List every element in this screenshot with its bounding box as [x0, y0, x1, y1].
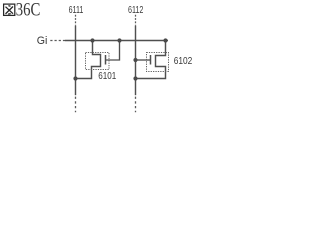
wire Q6101 gate lead	[106, 41, 120, 61]
transistor Q6102 gate bar	[150, 55, 152, 65]
svg-text:6111: 6111	[69, 5, 84, 16]
junction dot D5 (135,60)	[133, 58, 137, 62]
junction dot D3 (166,40)	[163, 38, 167, 42]
wire vertical line 6112 solid	[135, 26, 137, 95]
title glyph 図	[4, 4, 15, 15]
wire Q6102 gate lead	[136, 59, 151, 61]
svg-text:6102: 6102	[174, 56, 193, 67]
wire Gi horizontal line	[65, 40, 168, 42]
junction dot D4 (75,78)	[73, 76, 77, 80]
wire vertical line 6111 solid	[75, 26, 77, 95]
junction dot D1 (92,40)	[90, 38, 94, 42]
wire vertical line 6111 bottom dashed	[75, 97, 77, 113]
wire vertical line 6111 top dashed	[75, 15, 77, 26]
svg-text:Gi: Gi	[37, 35, 48, 47]
transistor Q6102 source-drain path	[136, 41, 166, 79]
transistor Q6101 source-drain path	[76, 41, 101, 79]
svg-text:6112: 6112	[128, 5, 144, 16]
junction dot D2 (119,40)	[117, 38, 121, 42]
svg-text:6101: 6101	[98, 71, 116, 82]
junction dot D6 (135,78)	[133, 76, 137, 80]
dashed box around Q6101	[86, 53, 110, 70]
dashed box around Q6102	[147, 53, 169, 72]
wire vertical line 6112 bottom dashed	[135, 97, 137, 113]
wire vertical line 6112 top dashed	[135, 15, 137, 26]
wire Gi dashed lead-in	[50, 40, 65, 42]
svg-text:36C: 36C	[16, 0, 41, 21]
transistor Q6101 gate bar	[105, 55, 107, 65]
